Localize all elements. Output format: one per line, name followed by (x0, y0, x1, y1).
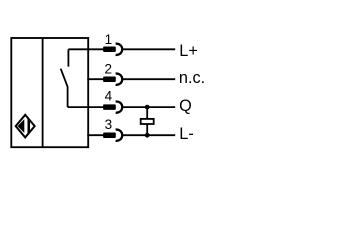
wire Q right (122, 106, 175, 108)
svg-text:Q: Q (179, 97, 192, 115)
connector pin 2 (103, 74, 122, 85)
junction node on L- (145, 133, 150, 138)
svg-text:4: 4 (105, 89, 113, 104)
wire n.c. right (122, 78, 175, 80)
wire pin3 left (87, 134, 104, 136)
svg-text:3: 3 (105, 117, 113, 132)
connector pin 1 (103, 44, 122, 55)
sensor body divider (42, 38, 44, 147)
switch contact Q (normally open) (61, 49, 69, 107)
load resistor (141, 119, 154, 124)
wire L+ right (122, 48, 175, 50)
junction node on Q (145, 105, 150, 110)
svg-text:L-: L- (179, 125, 193, 143)
connector pin 4 (103, 101, 122, 112)
wire pin4 left (68, 106, 104, 108)
svg-text:2: 2 (104, 61, 112, 76)
wire L- right (122, 134, 175, 136)
svg-text:L+: L+ (179, 42, 198, 60)
wire load vertical (146, 107, 148, 135)
proximity sensor symbol (diamond) (16, 115, 35, 138)
wire pin1 left (68, 48, 103, 50)
connector pin 3 (103, 130, 122, 141)
sensor symbol bar (28, 115, 31, 138)
svg-text:1: 1 (105, 32, 113, 47)
sensor symbol triangle (18, 119, 25, 133)
svg-text:n.c.: n.c. (179, 69, 205, 87)
wire pin2 left (87, 78, 104, 80)
sensor body box (11, 38, 88, 147)
